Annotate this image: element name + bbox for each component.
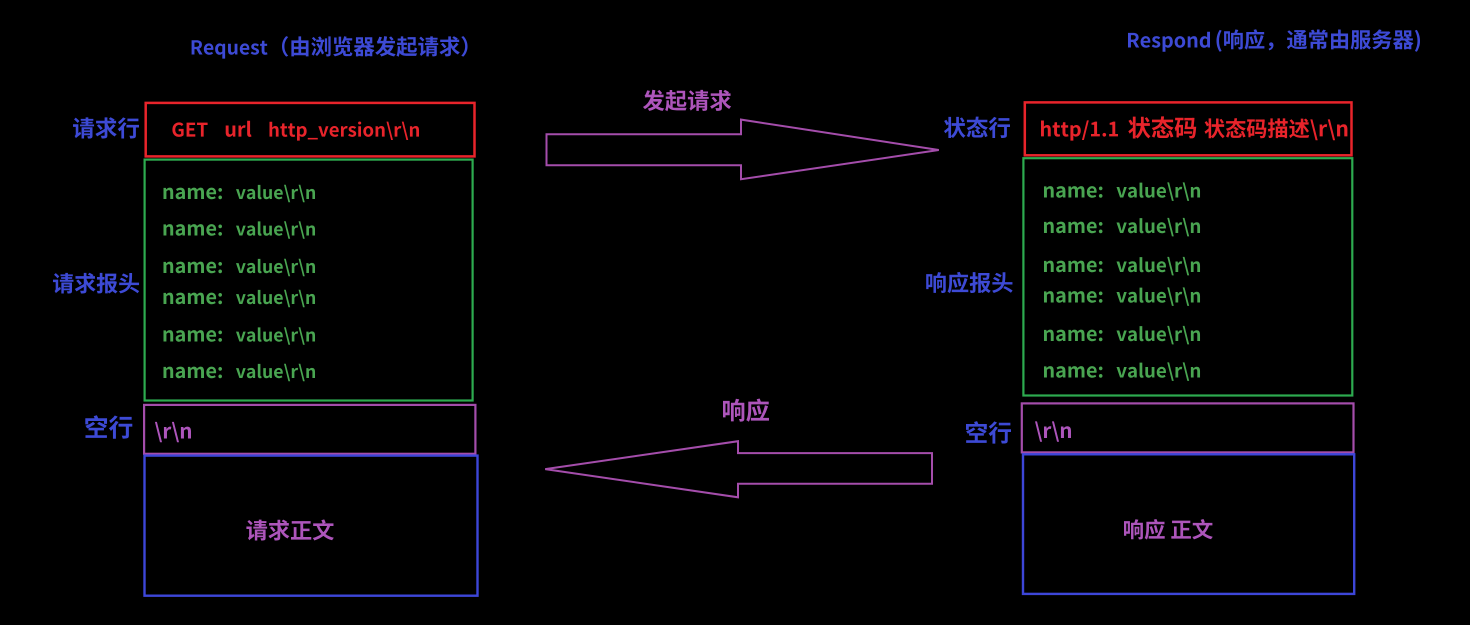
title: Respond (response, usually from server): [1128, 32, 1210, 52]
label: kong-hang (empty line) right: [966, 421, 1011, 444]
status line text http/1.1: [1041, 120, 1118, 140]
response header lines name: value: [1044, 186, 1103, 198]
label: xiang-ying-bao-tou (response headers): [926, 272, 1012, 293]
request header lines name: value: [163, 188, 222, 200]
empty line box right (purple): [1022, 403, 1354, 452]
request line box (red): [146, 103, 475, 156]
label: fa-qi-qing-qiu (initiate request): [643, 90, 731, 111]
empty line box left (purple): [144, 405, 475, 454]
request body text qing-qiu-zheng-wen: [246, 519, 334, 540]
label: zhuang-tai-hang (status line): [944, 117, 1010, 138]
label: kong-hang (empty line) left: [85, 415, 132, 439]
label: qing-qiu-hang (request line): [73, 117, 139, 138]
label: qing-qiu-bao-tou (request headers): [53, 273, 139, 294]
request headers box (green): [145, 160, 473, 401]
response body box (blue): [1023, 454, 1354, 594]
title: Request (request initiated by browser): [192, 40, 268, 58]
empty line text left \r\n: [155, 422, 191, 442]
empty line text right \r\n: [1035, 421, 1071, 441]
arrow right (request): [547, 120, 939, 180]
status line box (red): [1025, 102, 1352, 155]
arrow left (response): [545, 441, 932, 497]
request line text GET url http_version: [172, 122, 207, 136]
response headers box (green): [1023, 158, 1352, 395]
label: xiang-ying (response): [723, 399, 769, 422]
response body text xiang-ying-zheng-wen: [1124, 519, 1213, 540]
request body box (blue): [145, 456, 478, 596]
